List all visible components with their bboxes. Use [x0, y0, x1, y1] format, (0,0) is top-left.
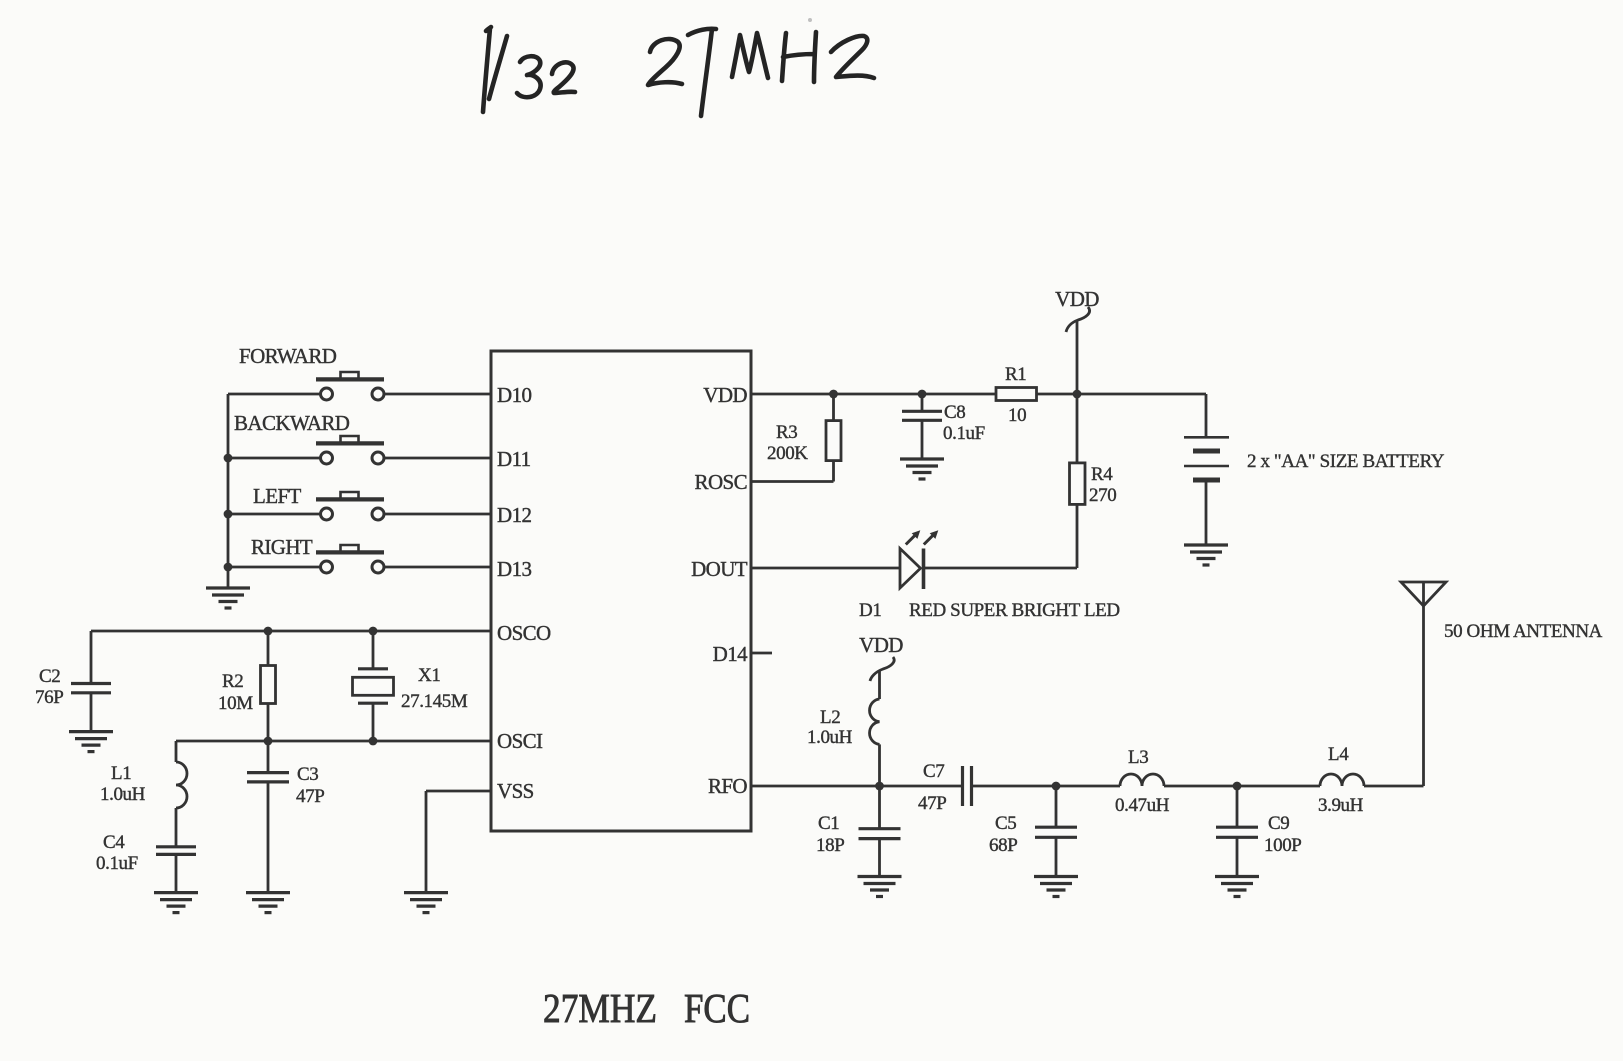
svg-text:L4: L4 [1328, 744, 1349, 765]
wire S4 to pin D13 [384, 566, 491, 569]
wire C2 to ground [90, 693, 93, 732]
junction bus-S2 [224, 454, 233, 463]
wire bus to S3 [228, 513, 321, 516]
svg-text:FCC: FCC [684, 985, 750, 1031]
svg-text:L2: L2 [820, 707, 840, 728]
junction VDD-R1-R4 [1073, 390, 1082, 399]
LED D1 [900, 530, 938, 589]
wire button bus [227, 394, 230, 588]
pin D14 stub [751, 652, 772, 655]
svg-text:2 x "AA" SIZE BATTERY: 2 x "AA" SIZE BATTERY [1247, 451, 1445, 472]
svg-text:C4: C4 [103, 832, 125, 853]
svg-text:10M: 10M [218, 693, 253, 714]
resistor R3 [826, 394, 841, 482]
IC U1 body [491, 351, 751, 831]
svg-text:270: 270 [1089, 485, 1116, 506]
svg-text:D10: D10 [497, 383, 531, 407]
resistor R2 [261, 631, 276, 741]
svg-text:RED SUPER BRIGHT LED: RED SUPER BRIGHT LED [909, 600, 1120, 621]
wire bus to S1 [228, 393, 321, 396]
svg-text:0.1uF: 0.1uF [943, 423, 985, 444]
capacitor C7 [963, 766, 972, 806]
wire S2 to pin D11 [384, 457, 491, 460]
svg-text:1.0uH: 1.0uH [100, 784, 146, 805]
ground C5 [1034, 877, 1078, 897]
inductor L4 [1320, 774, 1364, 786]
svg-text:C5: C5 [995, 813, 1016, 834]
junction OSCI-X1 [369, 737, 378, 746]
junction OSCI-R2 [264, 737, 273, 746]
junction VDD-R3 [829, 390, 838, 399]
svg-text:27MHZ: 27MHZ [543, 985, 657, 1031]
svg-text:OSCI: OSCI [497, 729, 543, 753]
svg-text:BACKWARD: BACKWARD [234, 411, 350, 435]
inductor L3 [1120, 774, 1164, 786]
resistor R4 [1070, 394, 1086, 568]
junction RFO-L2-C1 [875, 782, 884, 791]
svg-text:L1: L1 [111, 763, 131, 784]
svg-text:68P: 68P [989, 835, 1017, 856]
resistor R1 [996, 388, 1037, 401]
svg-text:C9: C9 [1268, 813, 1289, 834]
svg-text:OSCO: OSCO [497, 621, 551, 645]
wire VDD net row [751, 393, 1206, 396]
svg-text:LEFT: LEFT [253, 484, 302, 508]
svg-text:VSS: VSS [497, 779, 534, 803]
switch S2 BACKWARD [316, 436, 384, 464]
svg-text:R2: R2 [222, 671, 243, 692]
svg-text:D1: D1 [859, 600, 881, 621]
junction bus-S3 [224, 510, 233, 519]
svg-text:47P: 47P [918, 793, 946, 814]
inductor L2 [870, 670, 880, 786]
wire S1 to pin D10 [384, 393, 491, 396]
junction OSCO-R2 [264, 627, 273, 636]
wire VDD vertical [1076, 320, 1079, 394]
ground C2 [69, 732, 113, 752]
svg-text:C7: C7 [923, 761, 944, 782]
scan speck [808, 18, 812, 22]
svg-text:VDD: VDD [703, 383, 747, 407]
junction bus-S4 [224, 563, 233, 572]
capacitor C5 [1035, 786, 1077, 877]
svg-text:18P: 18P [816, 835, 844, 856]
wire S3 to pin D12 [384, 513, 491, 516]
svg-text:RIGHT: RIGHT [251, 535, 313, 559]
junction RFO-C5 [1052, 782, 1061, 791]
svg-text:0.47uH: 0.47uH [1115, 795, 1170, 816]
svg-text:10: 10 [1008, 405, 1026, 426]
switch S3 LEFT [316, 492, 384, 520]
svg-text:50 OHM ANTENNA: 50 OHM ANTENNA [1444, 621, 1603, 642]
inductor L1 [176, 741, 187, 847]
capacitor C1 [859, 786, 901, 877]
wire C2 drop [90, 631, 93, 684]
antenna ANT1 [1401, 582, 1446, 786]
svg-text:R4: R4 [1091, 464, 1113, 485]
svg-text:D11: D11 [497, 447, 531, 471]
ground C1 [858, 877, 902, 897]
switch S4 RIGHT [316, 545, 384, 573]
svg-text:VDD: VDD [1055, 287, 1099, 311]
ground battery [1184, 545, 1228, 565]
wire LED to R4 [924, 567, 1078, 570]
wire bus to S4 [228, 566, 321, 569]
svg-text:VDD: VDD [859, 633, 903, 657]
svg-text:ROSC: ROSC [695, 470, 747, 494]
svg-text:200K: 200K [767, 443, 808, 464]
svg-text:C3: C3 [297, 764, 318, 785]
ground C3 [246, 893, 290, 913]
svg-text:R3: R3 [776, 422, 797, 443]
svg-text:D12: D12 [497, 503, 531, 527]
capacitor C9 [1216, 786, 1258, 877]
wire ROSC net [751, 480, 834, 483]
svg-text:0.1uF: 0.1uF [96, 853, 138, 874]
wire bus to S2 [228, 457, 321, 460]
svg-text:FORWARD: FORWARD [239, 344, 337, 368]
capacitor C2 [71, 684, 111, 693]
wire OSCO net [91, 630, 491, 633]
wire VSS net [426, 791, 491, 893]
ground C9 [1215, 877, 1259, 897]
capacitor C8 [902, 394, 942, 459]
svg-text:C1: C1 [818, 813, 839, 834]
ground C4 [154, 893, 198, 913]
switch S1 FORWARD [316, 372, 384, 400]
wire RFO net [751, 785, 1424, 788]
handwritten title "1/32 27MHZ" [483, 27, 874, 116]
svg-text:1.0uH: 1.0uH [807, 727, 853, 748]
svg-text:76P: 76P [35, 687, 63, 708]
capacitor C3 [247, 741, 289, 893]
capacitor C4 [156, 847, 196, 855]
junction RFO-C9 [1233, 782, 1242, 791]
svg-text:L3: L3 [1128, 747, 1148, 768]
junction OSCO-X1 [369, 627, 378, 636]
crystal X1 [353, 631, 394, 741]
svg-text:47P: 47P [296, 786, 324, 807]
svg-text:R1: R1 [1005, 364, 1026, 385]
wire C4 to ground [175, 854, 178, 892]
ground C8 [900, 459, 944, 479]
ground bus [206, 588, 250, 608]
svg-text:D14: D14 [713, 642, 748, 666]
svg-text:D13: D13 [497, 557, 531, 581]
svg-text:3.9uH: 3.9uH [1318, 795, 1364, 816]
wire DOUT net [751, 567, 900, 570]
svg-text:27.145M: 27.145M [401, 691, 468, 712]
svg-text:RFO: RFO [708, 774, 747, 798]
svg-text:DOUT: DOUT [691, 557, 748, 581]
ground VSS [404, 893, 448, 913]
svg-text:C8: C8 [944, 402, 965, 423]
svg-text:X1: X1 [418, 665, 440, 686]
svg-text:100P: 100P [1264, 835, 1301, 856]
wire OSCI net [176, 740, 491, 743]
battery BT1 [1184, 394, 1229, 545]
junction VDD-C8 [918, 390, 927, 399]
svg-text:C2: C2 [39, 666, 60, 687]
